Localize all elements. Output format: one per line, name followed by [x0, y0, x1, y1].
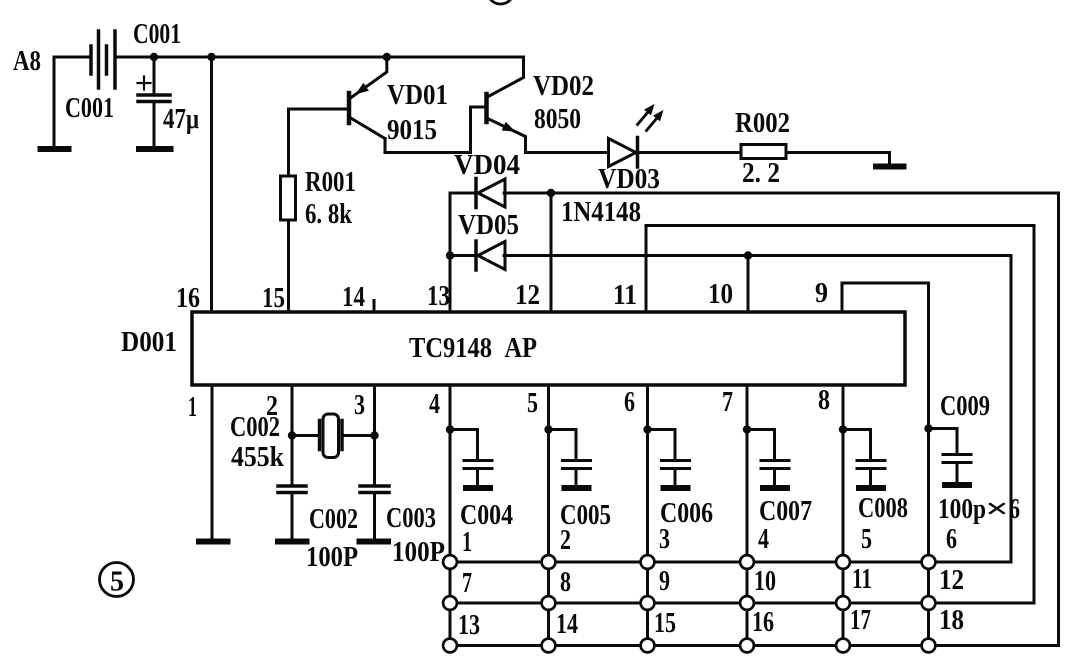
key 12 contact — [922, 596, 936, 610]
svg-text:A8: A8 — [13, 46, 41, 77]
node junction pin10 — [744, 251, 752, 259]
wire pin 14 stub — [373, 301, 376, 313]
key 10 contact — [740, 596, 754, 610]
resistor R002 2.2 — [741, 145, 786, 159]
diode VD05 — [450, 254, 476, 257]
key 17 contact — [836, 639, 850, 653]
svg-text:455k: 455k — [231, 442, 284, 473]
svg-text:2. 2: 2. 2 — [742, 158, 780, 189]
key 9 contact — [641, 596, 655, 610]
svg-text:C002: C002 — [230, 412, 280, 443]
wire pin 4 / key column 1 — [449, 385, 452, 646]
node junction VD01 emitter tap — [383, 53, 391, 61]
transistor VD02 8050 (NPN) — [484, 94, 489, 122]
svg-text:C007: C007 — [759, 496, 812, 527]
wire pin 5 / key column 2 — [547, 385, 550, 646]
key 3 contact — [641, 555, 655, 569]
capacitor C007 — [743, 425, 751, 433]
node junction crystal at pin2 — [288, 431, 296, 439]
svg-text:10: 10 — [708, 279, 733, 310]
svg-text:C001: C001 — [65, 93, 114, 124]
node junction pin12 — [547, 189, 555, 197]
wire pin 6 / key column 3 — [646, 385, 649, 646]
key 11 contact — [836, 596, 850, 610]
key 7 contact — [443, 596, 457, 610]
transistor VD01 9015 (PNP) — [347, 93, 352, 123]
wire top supply rail — [115, 56, 524, 59]
svg-text:13: 13 — [427, 281, 450, 312]
capacitor C003 100P — [360, 484, 389, 488]
svg-text:R002: R002 — [735, 108, 790, 139]
wire pin 10 column — [747, 256, 750, 313]
key 5 contact — [836, 555, 850, 569]
svg-text:1N4148: 1N4148 — [561, 197, 641, 228]
svg-text:14: 14 — [342, 282, 365, 313]
capacitor C009 100p x6 — [924, 424, 932, 432]
key 16 contact — [740, 639, 754, 653]
wire pin 3 column — [373, 385, 376, 485]
svg-text:7: 7 — [462, 568, 472, 599]
svg-text:6. 8k: 6. 8k — [305, 199, 352, 230]
svg-text:4: 4 — [429, 389, 440, 420]
wire pin 13 column — [449, 193, 452, 312]
wire crystal — [292, 434, 375, 437]
ground under C003 — [360, 539, 389, 545]
svg-text:5: 5 — [110, 567, 124, 598]
svg-text:16: 16 — [176, 283, 200, 314]
wire bus2 (pin11 to key row 2) — [646, 226, 1034, 604]
node junction crystal at pin3 — [370, 431, 378, 439]
wire key row 1 — [450, 561, 1011, 564]
svg-text:14: 14 — [556, 609, 578, 640]
svg-text:5: 5 — [527, 388, 538, 419]
decorative partial circle top — [487, 0, 514, 4]
wire pin 12 column — [550, 193, 553, 312]
key 4 contact — [740, 555, 754, 569]
svg-text:3: 3 — [354, 390, 365, 421]
svg-text:8: 8 — [560, 567, 571, 598]
wire pin 2 column — [291, 385, 294, 485]
svg-text:13: 13 — [458, 610, 480, 641]
ground at A8 — [41, 146, 69, 152]
wire LED to R002 — [638, 151, 742, 154]
node junction C001 tap — [150, 53, 158, 61]
wire pin 8 / key column 5 — [842, 385, 845, 646]
svg-text:C008: C008 — [858, 493, 908, 524]
svg-text:12: 12 — [515, 280, 540, 311]
key 15 contact — [641, 639, 655, 653]
svg-text:9: 9 — [815, 278, 828, 309]
svg-text:1: 1 — [462, 527, 472, 558]
capacitor C002 100P — [278, 484, 306, 488]
svg-text:11: 11 — [852, 564, 872, 595]
wire pin 7 / key column 4 — [746, 385, 749, 646]
svg-text:100p: 100p — [938, 494, 986, 525]
svg-text:C003: C003 — [386, 503, 436, 534]
resistor R001 6.8k — [281, 176, 296, 220]
svg-text:8050: 8050 — [534, 104, 581, 135]
wire A8 to battery — [54, 56, 91, 59]
capacitor C006 — [643, 425, 651, 433]
svg-text:C002: C002 — [309, 504, 358, 535]
svg-text:6: 6 — [1009, 494, 1020, 525]
wire key row 3 — [450, 644, 1059, 647]
key 18 contact — [922, 639, 936, 653]
svg-text:C009: C009 — [940, 391, 990, 422]
wire R002 to right ground — [786, 153, 890, 165]
capacitor C001 47u electrolytic — [153, 57, 156, 94]
svg-text:3: 3 — [659, 524, 670, 555]
svg-text:VD03: VD03 — [598, 164, 660, 195]
wire R001 to pin 15 — [287, 220, 290, 312]
wire A8 down lead — [53, 57, 56, 147]
key 14 contact — [542, 639, 556, 653]
svg-text:1: 1 — [188, 392, 197, 423]
svg-text:100P: 100P — [306, 542, 358, 573]
svg-text:12: 12 — [939, 565, 964, 596]
key 2 contact — [542, 555, 556, 569]
ground under C001 — [139, 146, 171, 152]
svg-text:VD04: VD04 — [454, 150, 520, 181]
key 13 contact — [443, 639, 457, 653]
wire pin 1 to ground — [211, 385, 214, 540]
svg-text:6: 6 — [624, 387, 635, 418]
svg-text:47μ: 47μ — [163, 104, 199, 135]
key 8 contact — [542, 596, 556, 610]
figure number circled 5 — [100, 563, 134, 597]
wire VD02 emitter to LED VD03 — [526, 151, 609, 154]
svg-text:17: 17 — [850, 605, 871, 636]
svg-text:C001: C001 — [133, 19, 181, 50]
svg-text:9: 9 — [659, 566, 670, 597]
capacitor C005 — [544, 425, 552, 433]
svg-text:6: 6 — [946, 524, 957, 555]
key 1 contact — [443, 555, 457, 569]
diode VD04 1N4148 — [450, 192, 476, 195]
svg-text:100P: 100P — [392, 537, 445, 568]
svg-text:D001: D001 — [121, 327, 177, 358]
svg-text:4: 4 — [758, 524, 769, 555]
svg-text:7: 7 — [722, 387, 733, 418]
svg-text:2: 2 — [560, 525, 571, 556]
svg-text:11: 11 — [613, 280, 637, 311]
wire pin 9 to key matrix column 6 — [842, 283, 929, 646]
ground under pin 1 — [199, 539, 228, 545]
svg-text:VD02: VD02 — [533, 71, 594, 102]
node junction VD05 at pin13 — [446, 251, 454, 259]
svg-text:VD01: VD01 — [387, 80, 448, 111]
svg-text:15: 15 — [654, 608, 676, 639]
svg-text:18: 18 — [939, 605, 964, 636]
ground under C002 — [278, 539, 307, 545]
key 6 contact — [922, 555, 936, 569]
svg-text:VD05: VD05 — [458, 210, 519, 241]
IC D001 TC9148 AP — [192, 312, 905, 385]
wire bus3 (VD05 to pin10 and key row 1) — [504, 256, 1011, 563]
node junction pin16 tap — [207, 53, 215, 61]
svg-text:5: 5 — [861, 524, 872, 555]
svg-text:×: × — [985, 494, 1009, 525]
wire bus1 (VD04 to pin12 and key row 3) — [504, 193, 1059, 646]
wire VD01 base to R001 and pin 15 — [289, 109, 350, 176]
svg-text:10: 10 — [754, 566, 776, 597]
capacitor C004 — [446, 425, 454, 433]
svg-text:16: 16 — [752, 607, 774, 638]
ground right of R002 — [876, 164, 904, 170]
svg-text:9015: 9015 — [387, 115, 437, 146]
svg-text:8: 8 — [818, 385, 830, 416]
wire VD01 collector to VD02 base — [385, 107, 485, 153]
capacitor C008 — [839, 425, 847, 433]
wire pin 16 column — [210, 57, 213, 312]
svg-text:TC9148 AP: TC9148 AP — [409, 333, 537, 364]
svg-text:15: 15 — [262, 283, 285, 314]
LED VD03 — [609, 139, 637, 167]
crystal resonator C002 455k — [318, 421, 322, 450]
svg-text:R001: R001 — [305, 167, 356, 198]
wire key row 2 — [450, 602, 1034, 605]
battery C001 (cells) — [89, 46, 93, 74]
